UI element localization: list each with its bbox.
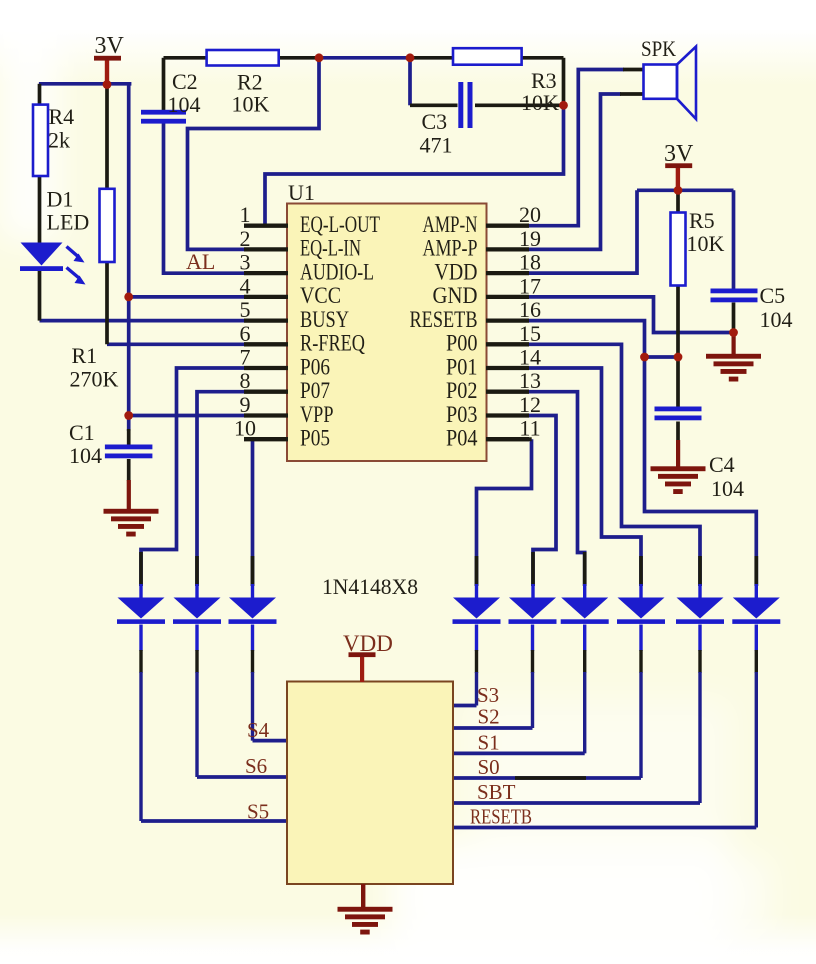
svg-text:10K: 10K xyxy=(521,90,559,115)
svg-text:EQ-L-IN: EQ-L-IN xyxy=(300,236,361,261)
svg-text:19: 19 xyxy=(519,226,541,251)
svg-text:P06: P06 xyxy=(300,354,330,379)
svg-text:C5: C5 xyxy=(760,283,786,308)
svg-text:C3: C3 xyxy=(422,109,448,134)
svg-text:AMP-P: AMP-P xyxy=(423,236,478,261)
svg-text:SBT: SBT xyxy=(477,780,516,804)
svg-text:104: 104 xyxy=(69,443,102,468)
svg-text:AL: AL xyxy=(186,249,215,274)
svg-text:VDD: VDD xyxy=(435,259,478,284)
svg-text:10: 10 xyxy=(234,416,256,441)
svg-text:P02: P02 xyxy=(446,378,478,403)
svg-text:3: 3 xyxy=(240,250,251,275)
svg-text:AUDIO-L: AUDIO-L xyxy=(300,259,374,284)
svg-text:R5: R5 xyxy=(689,208,715,233)
svg-text:10K: 10K xyxy=(687,231,725,256)
svg-text:2: 2 xyxy=(240,226,251,251)
svg-text:13: 13 xyxy=(519,368,541,393)
svg-text:R1: R1 xyxy=(72,343,98,368)
svg-text:471: 471 xyxy=(420,133,453,158)
svg-text:16: 16 xyxy=(519,297,541,322)
svg-text:P03: P03 xyxy=(446,402,478,427)
svg-text:270K: 270K xyxy=(70,367,119,392)
svg-text:EQ-L-OUT: EQ-L-OUT xyxy=(300,212,380,237)
svg-text:P05: P05 xyxy=(300,426,330,451)
svg-text:104: 104 xyxy=(168,92,201,117)
svg-text:U1: U1 xyxy=(288,180,315,205)
svg-text:3V: 3V xyxy=(95,33,125,59)
svg-text:RESETB: RESETB xyxy=(410,307,478,332)
svg-text:S1: S1 xyxy=(478,731,500,755)
svg-text:LED: LED xyxy=(47,210,90,235)
svg-text:SPK: SPK xyxy=(641,36,676,61)
svg-text:5: 5 xyxy=(240,297,251,322)
svg-text:14: 14 xyxy=(519,345,541,370)
svg-text:4: 4 xyxy=(240,273,251,298)
svg-text:D1: D1 xyxy=(47,187,74,212)
svg-text:AMP-N: AMP-N xyxy=(423,212,478,237)
svg-text:R-FREQ: R-FREQ xyxy=(300,331,365,356)
svg-text:15: 15 xyxy=(519,321,541,346)
svg-text:7: 7 xyxy=(240,345,251,370)
svg-text:R4: R4 xyxy=(49,104,75,129)
svg-text:8: 8 xyxy=(240,368,251,393)
svg-text:18: 18 xyxy=(519,250,541,275)
svg-text:VCC: VCC xyxy=(300,283,341,308)
svg-text:S0: S0 xyxy=(478,755,500,779)
svg-text:2k: 2k xyxy=(48,128,70,153)
svg-text:P04: P04 xyxy=(446,426,478,451)
svg-text:C1: C1 xyxy=(69,420,95,445)
svg-text:6: 6 xyxy=(240,321,251,346)
svg-text:VDD: VDD xyxy=(343,631,393,656)
svg-text:VPP: VPP xyxy=(300,402,334,427)
svg-text:10K: 10K xyxy=(232,92,270,117)
svg-text:3V: 3V xyxy=(664,141,694,167)
svg-text:17: 17 xyxy=(519,273,541,298)
svg-text:S4: S4 xyxy=(247,718,270,742)
svg-text:C2: C2 xyxy=(172,69,198,94)
svg-text:GND: GND xyxy=(433,283,478,308)
svg-text:20: 20 xyxy=(519,202,541,227)
svg-text:1N4148X8: 1N4148X8 xyxy=(322,574,418,599)
svg-text:S5: S5 xyxy=(247,800,269,824)
svg-text:12: 12 xyxy=(519,392,541,417)
svg-text:P01: P01 xyxy=(446,354,478,379)
svg-text:11: 11 xyxy=(519,416,540,441)
svg-text:RESETB: RESETB xyxy=(470,805,532,829)
svg-text:9: 9 xyxy=(240,392,251,417)
svg-text:P00: P00 xyxy=(446,331,478,356)
svg-text:S2: S2 xyxy=(478,705,500,729)
svg-text:S3: S3 xyxy=(477,683,499,707)
svg-text:1: 1 xyxy=(240,202,251,227)
svg-text:104: 104 xyxy=(711,476,744,501)
svg-text:C4: C4 xyxy=(709,452,735,477)
svg-text:BUSY: BUSY xyxy=(300,307,349,332)
svg-text:P07: P07 xyxy=(300,378,330,403)
svg-text:104: 104 xyxy=(760,307,793,332)
svg-text:S6: S6 xyxy=(245,754,267,778)
